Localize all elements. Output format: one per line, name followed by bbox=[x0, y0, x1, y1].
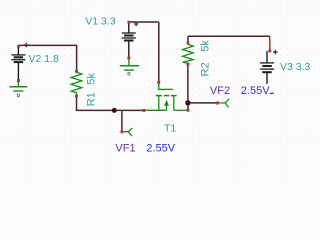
svg-text:VF1: VF1 bbox=[115, 142, 135, 154]
svg-text:V1 3.3: V1 3.3 bbox=[85, 15, 116, 27]
svg-text:5k: 5k bbox=[199, 40, 211, 52]
probe marker VF1 bbox=[121, 128, 133, 136]
svg-text:V2 1.8: V2 1.8 bbox=[29, 53, 60, 65]
node junction drain bbox=[185, 100, 190, 105]
battery V1 bbox=[122, 21, 139, 60]
wire R1 top drop bbox=[76, 45, 78, 71]
svg-text:R1: R1 bbox=[85, 92, 97, 106]
probe marker VF2 bbox=[216, 99, 229, 108]
wire gate drop from V1 bbox=[158, 22, 160, 82]
ground under V2 bbox=[10, 82, 28, 97]
wire R2 top rail to V3 bbox=[188, 35, 270, 37]
svg-text:T1: T1 bbox=[164, 122, 176, 134]
svg-text:2.55V: 2.55V bbox=[241, 85, 270, 97]
wire R2 top stub bbox=[187, 36, 189, 42]
wire VF1 probe drop bbox=[121, 110, 123, 132]
resistor R2 bbox=[183, 42, 194, 66]
wire drain node to VF2 probe bbox=[188, 102, 219, 104]
transistor T1 (NMOS) bbox=[143, 81, 190, 112]
wire V1+ rail bbox=[129, 21, 159, 23]
wire R1 bottom to MOSFET source rail bbox=[77, 96, 144, 111]
wire V2+ to R1 top rail bbox=[18, 44, 76, 46]
svg-text:V3 3.3: V3 3.3 bbox=[280, 61, 311, 73]
resistor R1 bbox=[71, 70, 82, 98]
svg-text:5k: 5k bbox=[85, 73, 97, 85]
svg-text:VF2: VF2 bbox=[210, 85, 230, 97]
svg-text:R2: R2 bbox=[199, 62, 211, 76]
wire R2 bottom to drain node bbox=[187, 65, 189, 111]
wire V3 top drop bbox=[269, 36, 271, 51]
svg-text:2.55V: 2.55V bbox=[146, 142, 175, 154]
ground under V1 bbox=[120, 59, 139, 75]
battery V2 bbox=[11, 43, 28, 82]
battery V3 bbox=[260, 50, 278, 95]
node junction on source rail bbox=[112, 108, 117, 113]
